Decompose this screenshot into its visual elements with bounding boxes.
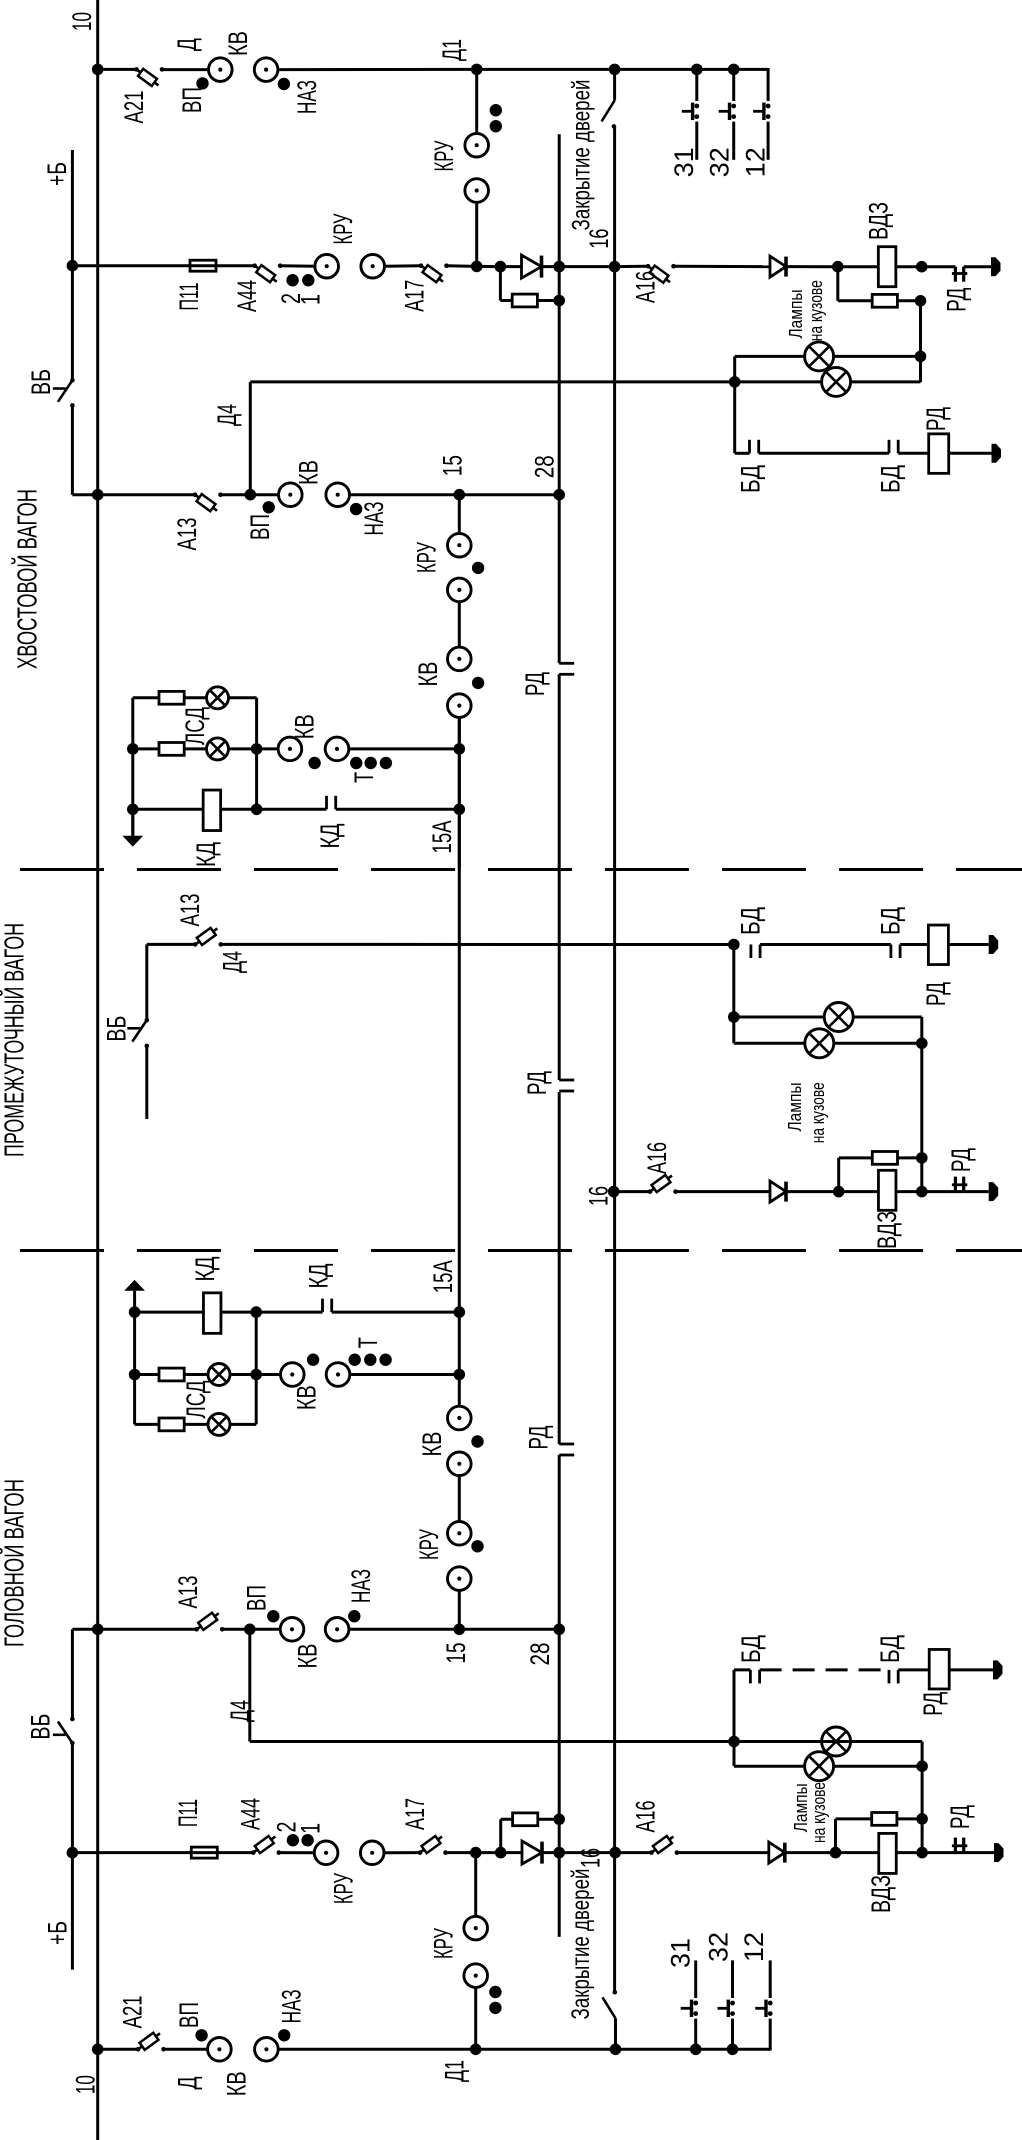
node T row mid (head) xyxy=(250,1369,262,1381)
relay coil VDZ (head) xyxy=(879,1833,897,1873)
svg-text:10: 10 xyxy=(71,2075,101,2094)
svg-text:ВП: ВП xyxy=(242,1585,272,1611)
svg-text:А13: А13 xyxy=(172,518,202,551)
svg-text:КВ: КВ xyxy=(294,460,324,485)
wire Y3 tail row xyxy=(72,493,195,496)
lamp row1 left drop xyxy=(733,356,736,382)
svg-text:28: 28 xyxy=(530,455,560,478)
svg-text:БД: БД xyxy=(876,465,906,493)
lamp body 1 (head) xyxy=(822,1727,851,1756)
wire to branch 31 xyxy=(615,68,697,71)
wire A21 to KV (head) xyxy=(164,2048,208,2051)
svg-text:28: 28 xyxy=(525,1643,555,1666)
wire 15A circleD to T row xyxy=(458,717,461,869)
wire KRU to A17 xyxy=(385,264,422,268)
node D1 top (head) xyxy=(470,1847,482,1859)
node D1 xyxy=(471,64,483,76)
branch 12 wire lower xyxy=(767,122,770,160)
wire lamp row2 (head) xyxy=(734,1765,922,1768)
pin 1 (dot) xyxy=(302,274,314,286)
resistor branch up wire (head) xyxy=(499,1819,502,1852)
node Y1 head on wire 10 xyxy=(92,2044,104,2056)
contact KD (head) xyxy=(323,1299,332,1313)
connector KV circle (T row tail) xyxy=(278,737,302,761)
connector NAZ circle (head Y1) xyxy=(255,2038,279,2062)
wire 16 to A16 (intermediate) xyxy=(614,1190,650,1193)
node Y3 head on wire 10 xyxy=(92,1624,104,1636)
wire D1 to door-switch node xyxy=(477,68,615,71)
svg-text:КВ: КВ xyxy=(222,2071,252,2096)
svg-text:+Б: +Б xyxy=(42,162,72,186)
branch 32 wire upper xyxy=(732,69,735,101)
svg-text:РД: РД xyxy=(942,288,972,312)
svg-text:ВДЗ: ВДЗ xyxy=(866,1875,896,1913)
wire to A16 xyxy=(615,265,648,268)
node wire16 bottom (head) xyxy=(610,2044,622,2056)
wire D1 to door switch (head) xyxy=(476,2048,616,2051)
wire KD contact to 15A xyxy=(336,808,460,811)
svg-text:ВДЗ: ВДЗ xyxy=(864,202,894,240)
ground chassis (tail BD row) xyxy=(992,444,1002,463)
connector NAZ circle (tail Y3) xyxy=(326,483,350,507)
svg-text:16: 16 xyxy=(584,229,614,249)
wire LSD right vertical (head) xyxy=(255,1312,258,1424)
node branch 31 xyxy=(691,64,703,76)
node 15A/T row (head) xyxy=(454,1369,466,1381)
wire diode to VDZ node xyxy=(786,265,838,268)
breaker A21 (head) xyxy=(136,2033,166,2052)
wire 28 to 16 on A16 row (head) xyxy=(559,1851,615,1854)
svg-text:РД: РД xyxy=(918,1692,948,1716)
connector KV circle b (head 15A) xyxy=(448,1452,472,1476)
node T row left (head) xyxy=(129,1369,141,1381)
branch 12 contact (head) xyxy=(755,2000,772,2017)
wire to branch 12 corner (head) xyxy=(733,2048,771,2051)
wire ground stem (tail) xyxy=(131,809,134,836)
connector KRU circle b (head 15A) xyxy=(448,1567,472,1591)
node tail Y1 on wire 10 xyxy=(92,64,104,76)
node D4/lamp row1 (head) xyxy=(728,1736,740,1748)
svg-text:А21: А21 xyxy=(119,91,149,124)
wire lamp left drop (head) xyxy=(733,1742,736,1767)
pin dot KV T row xyxy=(308,757,320,769)
svg-text:А44: А44 xyxy=(232,280,262,312)
node VDZ out (head) xyxy=(916,1847,928,1859)
svg-text:Закрытие дверей: Закрытие дверей xyxy=(567,1869,595,2020)
pin 1 dot (head) xyxy=(301,1834,313,1846)
node D1 bottom xyxy=(471,261,483,273)
connector KRU circle a (head 15A) xyxy=(448,1522,472,1546)
lamp body 1 (intermediate) xyxy=(824,1003,853,1032)
wire RD to ground (intermediate) xyxy=(964,1190,989,1193)
lamp LSD mid (head) xyxy=(208,1364,230,1386)
node wire28/diode (head) xyxy=(553,1847,565,1859)
node 15A/T row (tail) xyxy=(454,743,466,755)
svg-text:ХВОСТОВОЙ ВАГОН: ХВОСТОВОЙ ВАГОН xyxy=(12,489,43,669)
resistor LSD mid (tail) xyxy=(159,743,184,756)
switch VB (head) xyxy=(53,1717,75,1746)
connector NAZ circle (head Y3) xyxy=(325,1618,349,1642)
branch 32 contact (head) xyxy=(718,2000,735,2017)
wire BD2 to RD coil xyxy=(898,452,991,455)
breaker A13 (head) xyxy=(194,1613,224,1632)
diode (head P11 row) xyxy=(522,1841,542,1864)
svg-text:Д4: Д4 xyxy=(218,951,248,973)
wire T row (head) xyxy=(135,1373,303,1376)
wire T row to 15A (head) xyxy=(350,1373,460,1376)
wire NAZ to node D1 xyxy=(278,68,477,71)
svg-text:10: 10 xyxy=(67,12,97,31)
connector KRU circle b (tail P11 row) xyxy=(361,254,385,278)
svg-text:ВП: ВП xyxy=(177,87,207,113)
wire D4 node to connector VP xyxy=(250,493,278,496)
wire D4 vertical (head) xyxy=(248,1629,251,1741)
svg-text:ЛСД: ЛСД xyxy=(181,1381,211,1419)
diode (intermediate A16 row) xyxy=(770,1181,786,1202)
svg-text:12: 12 xyxy=(739,1932,769,1962)
wire LSD bottom row (head) xyxy=(135,1423,257,1426)
wire A13 to D4 node (head) xyxy=(222,1628,250,1631)
connector KRU circle b (15A) xyxy=(448,578,472,602)
node lamp row1 (intermediate) xyxy=(728,1011,740,1023)
node lamp row2 right (intermediate) xyxy=(916,1038,928,1050)
node BD feed (intermediate) xyxy=(728,939,740,951)
svg-text:+Б: +Б xyxy=(42,1921,72,1945)
wire BD2 to RD coil (intermediate) xyxy=(900,943,989,946)
node resistor right (intermediate) xyxy=(916,1152,928,1164)
svg-text:БД: БД xyxy=(736,907,766,935)
node KD row left (head) xyxy=(129,1306,141,1318)
connector T circle (T row tail) xyxy=(325,737,349,761)
svg-text:РД: РД xyxy=(522,1071,552,1095)
svg-text:Лампы: Лампы xyxy=(791,1783,811,1832)
wire between pairs (head 15A) xyxy=(458,1476,461,1522)
connector KV circle a (15A) xyxy=(448,647,472,671)
branch 12 contact xyxy=(753,103,770,120)
lamp LSD top (tail) xyxy=(207,687,229,709)
ground (tail KD) xyxy=(122,836,143,847)
ground chassis (intermediate A16 row) xyxy=(989,1182,999,1201)
wire D4 corner intermediate xyxy=(145,944,148,1020)
contact BD 1 (tail) xyxy=(750,440,759,454)
node A16 row wire16 (intermediate) xyxy=(608,1186,620,1198)
breaker A17 (tail) xyxy=(419,263,449,282)
wire LSD left vertical (head) xyxy=(133,1291,136,1425)
wire D4 vertical (tail) xyxy=(249,382,252,495)
node VDZ in (intermediate) xyxy=(833,1186,845,1198)
svg-text:А16: А16 xyxy=(631,271,661,303)
branch 31 contact xyxy=(682,103,699,120)
svg-text:КД: КД xyxy=(190,1257,220,1282)
pin VP dot (tail Y3) xyxy=(263,501,275,513)
node diode/resistor tap xyxy=(495,261,507,273)
svg-text:15: 15 xyxy=(441,1643,471,1664)
node branch 32 (head) xyxy=(727,2044,739,2056)
wire A16 to diode (head) xyxy=(677,1851,769,1854)
wire between BD contacts dashed (head) xyxy=(760,1668,889,1671)
wire A13 to D4 node xyxy=(221,493,251,496)
svg-text:КРУ: КРУ xyxy=(428,1927,458,1959)
svg-text:31: 31 xyxy=(669,147,699,177)
svg-text:ГОЛОВНОЙ ВАГОН: ГОЛОВНОЙ ВАГОН xyxy=(0,1479,30,1647)
svg-text:Д1: Д1 xyxy=(439,2060,469,2082)
svg-text:А16: А16 xyxy=(642,1142,672,1174)
svg-text:Д4: Д4 xyxy=(225,1700,255,1722)
connector KRU circle upper (D1) xyxy=(465,133,489,157)
node Y3 on wire 10 xyxy=(92,489,104,501)
ground (head KD) xyxy=(124,1280,145,1291)
wire P11 row (head) xyxy=(72,1851,253,1854)
node D4 (head Y3) xyxy=(244,1624,256,1636)
ground chassis (head A16 row) xyxy=(994,1843,1004,1862)
contact RD on wire 28 (tail) xyxy=(559,663,574,674)
svg-text:НАЗ: НАЗ xyxy=(277,1989,307,2023)
connector T circle (T row head) xyxy=(326,1363,350,1387)
svg-text:КВ: КВ xyxy=(291,1385,321,1410)
svg-text:1: 1 xyxy=(296,1823,326,1834)
svg-text:БД: БД xyxy=(875,1635,905,1663)
wire D4 row (intermediate) xyxy=(147,943,196,946)
node 15 (tail) xyxy=(454,489,466,501)
svg-text:КВ: КВ xyxy=(223,31,253,56)
pin dots KRU D1 (head) xyxy=(489,1986,501,1998)
pin NAZ dot (tail Y3) xyxy=(350,503,362,515)
wire VDZ row (head) xyxy=(836,1851,923,1854)
wire lamp right vertical (head) xyxy=(921,1742,924,1853)
section boundary tail/intermediate (dashed) xyxy=(20,868,1022,871)
relay coil KD (head) xyxy=(203,1293,221,1334)
node 15A/KD row (tail) xyxy=(454,804,466,816)
svg-text:Т: Т xyxy=(349,772,379,783)
resistor (tail, parallel to diode) xyxy=(512,294,537,307)
connector KV circle (head Y3) xyxy=(280,1618,304,1642)
pins T three dots (head) xyxy=(349,1354,361,1366)
contact RD on wire 28 (head) xyxy=(559,1444,574,1455)
svg-text:16: 16 xyxy=(576,1848,606,1868)
connector pin VP (dot) xyxy=(196,77,208,89)
connector pin NAZ (dot) xyxy=(278,78,290,90)
branch 32 wire lower xyxy=(732,122,735,160)
resistor (head VDZ bypass) xyxy=(872,1813,897,1826)
wire lamp row1 right (head) xyxy=(734,1740,922,1743)
contact RD near ground (tail) xyxy=(952,267,967,282)
pin dot KRU 15A xyxy=(472,562,484,574)
branch 32 contact xyxy=(719,103,736,120)
wire resistor row (intermediate) xyxy=(839,1156,922,1159)
breaker A16 (tail) xyxy=(646,264,676,283)
wire NAZ to D1 (head) xyxy=(278,2048,476,2051)
ground chassis (head BD row) xyxy=(993,1660,1003,1679)
fuse P11 (tail) xyxy=(190,260,216,271)
wire A16 to diode (intermediate) xyxy=(676,1190,771,1193)
svg-text:КД: КД xyxy=(304,1264,334,1289)
svg-text:ВБ: ВБ xyxy=(26,369,56,395)
lamp body 2 (intermediate) xyxy=(805,1029,834,1058)
node T row mid (tail) xyxy=(251,743,263,755)
switch VB (tail) xyxy=(53,378,75,408)
node KD row left (tail) xyxy=(127,804,139,816)
wire VB to P11 node (head) xyxy=(71,1743,74,1970)
svg-text:КРУ: КРУ xyxy=(412,541,442,573)
connector NAZ circle xyxy=(254,58,278,82)
wire D1 vertical lower (head) xyxy=(474,1987,477,2049)
branch 31 wire lower xyxy=(695,122,698,160)
svg-text:НАЗ: НАЗ xyxy=(359,502,389,536)
lamp body 2 (tail) xyxy=(822,367,851,396)
wire D4 row (head) xyxy=(250,1740,734,1743)
node lamp row1 right xyxy=(915,351,927,363)
wire D4 row (tail) xyxy=(250,380,734,383)
svg-text:КВ: КВ xyxy=(413,662,443,687)
wire lamp vertical (tail) xyxy=(919,301,922,382)
wire VB to Y3 corner xyxy=(71,405,74,494)
wire VDZ bypass drop (head) xyxy=(834,1819,837,1853)
breaker A17 (head) xyxy=(418,1836,448,1855)
node branch 31 (head) xyxy=(690,2044,702,2056)
node D4/lamp row2 (tail) xyxy=(729,376,741,388)
wire lamp row2 (intermediate) xyxy=(734,1042,922,1045)
svg-text:А44: А44 xyxy=(236,1798,266,1830)
wire to diode xyxy=(500,265,521,268)
wire NAZ to node 15 (head) xyxy=(349,1628,459,1631)
svg-text:32: 32 xyxy=(705,147,735,177)
wire T row to 15A (tail) xyxy=(349,747,460,750)
node 28 (tail) xyxy=(553,489,565,501)
connector KRU circle b (head P11 row) xyxy=(360,1841,384,1865)
resistor (head, parallel to diode) xyxy=(513,1813,538,1826)
resistor (tail VDZ bypass) xyxy=(872,294,897,307)
wire A17 to node xyxy=(447,264,477,268)
node wire16/A16 (tail) xyxy=(609,261,621,273)
wire P11 row from +B xyxy=(72,264,254,267)
wire to RD contact (head) xyxy=(922,1851,964,1854)
pin 2 dot (head) xyxy=(287,1834,299,1846)
wire to A16 (head) xyxy=(615,1851,651,1854)
wire T row (tail) xyxy=(133,747,300,750)
svg-text:КВ: КВ xyxy=(417,1432,447,1457)
connector KV circle (head Y1) xyxy=(208,2038,232,2062)
switch VB (intermediate) xyxy=(127,1018,149,1048)
node P11 feed (head) xyxy=(67,1847,79,1859)
branch 32 wire lower (head) xyxy=(731,2019,734,2050)
node D1 bottom (head) xyxy=(470,2044,482,2056)
relay coil RD (intermediate) xyxy=(928,925,948,965)
wire LSD right vertical (tail) xyxy=(255,698,258,810)
pin VP dot (head Y3) xyxy=(267,1610,279,1622)
wire 28 to 16 on A16 row xyxy=(559,265,614,268)
node VDZ out (tail) xyxy=(916,261,928,273)
connector KRU circle a (head P11 row) xyxy=(314,1841,338,1865)
pin dots KRU D1 xyxy=(490,104,502,116)
svg-text:ВП: ВП xyxy=(174,2002,204,2028)
door closing switch (tail) xyxy=(602,69,617,128)
wire BD riser (head) xyxy=(733,1670,736,1742)
wire KRU vertical D1 upper xyxy=(475,69,478,133)
diode (head A16 row) xyxy=(769,1842,785,1863)
svg-text:ПРОМЕЖУТОЧНЫЙ ВАГОН: ПРОМЕЖУТОЧНЫЙ ВАГОН xyxy=(0,923,30,1157)
diode (tail P11 row) xyxy=(522,255,542,278)
fuse P11 (head) xyxy=(191,1847,217,1858)
svg-text:РД: РД xyxy=(945,1805,975,1829)
connector KV circle b (15A) xyxy=(448,694,472,718)
svg-text:15А: 15А xyxy=(427,821,457,854)
svg-text:НАЗ: НАЗ xyxy=(292,80,322,114)
contact RD near ground (intermediate) xyxy=(952,1177,967,1192)
wire bypass resistor row xyxy=(838,299,921,302)
wire diode to wire28 (head) xyxy=(542,1851,559,1854)
connector KV circle a (head 15A) xyxy=(448,1406,472,1430)
wire 15A to KRU pair (tail) xyxy=(458,495,461,534)
wire bypass resistor row (head) xyxy=(836,1817,923,1820)
wire +B corner (head) xyxy=(71,1629,74,1719)
svg-text:31: 31 xyxy=(665,1938,695,1968)
relay coil RD (head) xyxy=(929,1649,949,1689)
diode (tail A16 row) xyxy=(770,256,786,277)
connector KV circle xyxy=(209,58,233,82)
wire to branch 32 xyxy=(697,68,734,71)
wire lamp feed drop (intermediate) xyxy=(732,945,735,1044)
relay coil RD (tail) xyxy=(929,434,949,474)
svg-text:ВДЗ: ВДЗ xyxy=(872,1211,902,1249)
branch 12 wire upper xyxy=(767,68,770,101)
svg-text:РД: РД xyxy=(946,1148,976,1172)
svg-text:КРУ: КРУ xyxy=(328,213,358,245)
svg-text:РД: РД xyxy=(921,982,951,1006)
wire resistor row xyxy=(500,299,559,302)
wire 15A head upper xyxy=(458,1590,461,1629)
wire LSD left vertical (tail) xyxy=(131,698,134,836)
lamp body 1 (tail) xyxy=(805,342,834,371)
svg-text:Д: Д xyxy=(172,2077,202,2090)
breaker A44 (head) xyxy=(251,1836,281,1855)
wire resistor drop (intermediate) xyxy=(837,1158,840,1192)
wire to RD pressure contact xyxy=(922,265,956,268)
svg-text:НАЗ: НАЗ xyxy=(346,1569,376,1603)
node VDZ in (tail) xyxy=(832,261,844,273)
branch 32 wire upper (head) xyxy=(731,1960,734,1998)
node P11 feed xyxy=(67,260,79,272)
wire A44 to KRU connector xyxy=(280,264,315,268)
connector KRU circle a (15A) xyxy=(448,533,472,557)
wire D4 node to VP (head) xyxy=(250,1628,280,1631)
wire VDZ bypass resistor drop xyxy=(836,267,839,301)
pin dot KV (T row head) xyxy=(307,1354,319,1366)
wire lamp row1 (tail) xyxy=(735,355,921,358)
svg-text:12: 12 xyxy=(741,147,771,177)
ground chassis (intermediate BD row) xyxy=(989,935,999,954)
node D4 (tail Y3) xyxy=(245,489,257,501)
wire tail Y1 left segment xyxy=(98,68,137,71)
relay coil VDZ (tail) xyxy=(878,247,896,287)
node on wire 16 top xyxy=(609,64,621,76)
node lamp vertical/resistor xyxy=(915,295,927,307)
node 15A/KD row (head) xyxy=(454,1306,466,1318)
svg-text:БД: БД xyxy=(876,907,906,935)
branch 31 wire upper (head) xyxy=(694,1960,697,1998)
wire resistor row (head) xyxy=(501,1818,560,1821)
svg-text:Д4: Д4 xyxy=(212,404,242,426)
svg-text:на кузове: на кузове xyxy=(809,1782,829,1843)
door closing switch (head) xyxy=(603,1990,618,2049)
pin NAZ dot (head Y1) xyxy=(278,2029,290,2041)
wire lamp right vertical (intermediate) xyxy=(920,1017,923,1192)
svg-text:на кузове: на кузове xyxy=(808,1082,828,1143)
wire to branch 32 (head) xyxy=(696,2048,733,2051)
contact BD 1 (head) xyxy=(750,1670,759,1684)
svg-text:КД: КД xyxy=(315,824,345,849)
wire 28 upper segment xyxy=(558,134,561,663)
wire 16 (door-closing train line) xyxy=(613,126,616,1992)
